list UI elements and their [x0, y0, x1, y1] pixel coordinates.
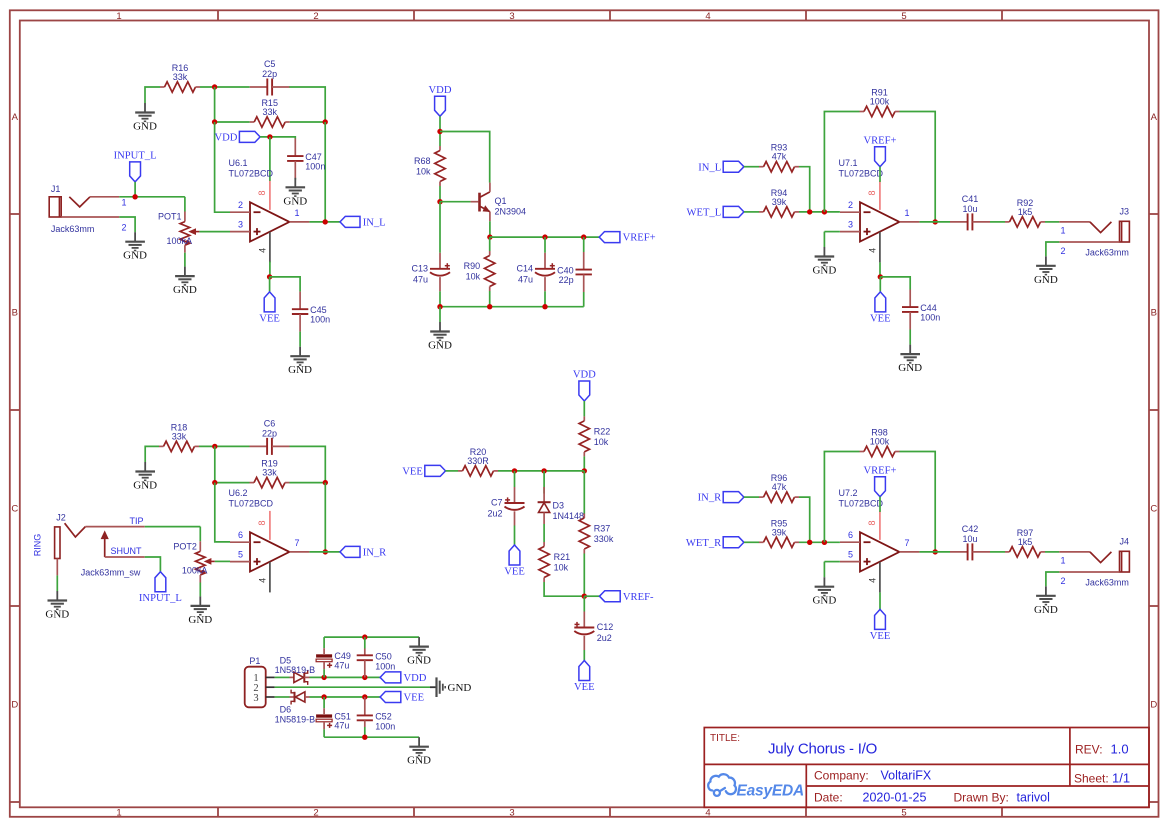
svg-text:TL072BCD: TL072BCD [229, 169, 274, 179]
wire [200, 86, 250, 88]
border row letters [11, 112, 1157, 711]
svg-text:TIP: TIP [130, 516, 144, 526]
svg-text:GND: GND [45, 609, 69, 621]
potentiometer POT1 [158, 197, 199, 267]
node R98/pin6 [822, 540, 827, 545]
svg-text:1: 1 [116, 11, 121, 22]
power flag VDD [380, 672, 427, 684]
wire [299, 332, 301, 347]
svg-text:INPUT_L: INPUT_L [114, 150, 157, 161]
wire [290, 446, 326, 482]
wire [583, 554, 585, 597]
svg-text:J2: J2 [56, 512, 66, 522]
wire [309, 221, 340, 223]
wire [119, 217, 135, 232]
svg-text:POT1: POT1 [158, 212, 182, 222]
svg-text:8: 8 [257, 520, 267, 525]
svg-text:5: 5 [848, 550, 853, 560]
svg-text:100n: 100n [305, 162, 325, 172]
wire [446, 470, 459, 472]
wire [215, 446, 250, 482]
ground [283, 178, 307, 208]
svg-text:2: 2 [122, 222, 127, 232]
company row [814, 769, 932, 783]
svg-text:GND: GND [288, 364, 312, 376]
node R16/C5/R15 [212, 84, 217, 89]
svg-text:R37: R37 [594, 524, 611, 534]
svg-text:GND: GND [898, 362, 922, 374]
ground [133, 462, 157, 492]
node C14/GND rail [542, 304, 547, 309]
svg-text:TL072BCD: TL072BCD [839, 499, 884, 509]
net flag IN_R [340, 546, 387, 558]
net flag IN_L [698, 161, 744, 173]
svg-text:GND: GND [407, 755, 431, 767]
resistor R98 [860, 428, 900, 457]
net flag INPUT_L [139, 572, 182, 605]
node D6/C51 [321, 694, 326, 699]
net flag IN_L [340, 216, 386, 228]
capacitor C6 [250, 418, 290, 455]
power flag VREF+ [863, 465, 896, 496]
wire [823, 232, 825, 247]
capacitor C51 [316, 697, 351, 737]
svg-text:22p: 22p [262, 69, 277, 79]
wire [309, 551, 340, 553]
svg-text:33k: 33k [173, 72, 188, 82]
svg-text:Q1: Q1 [495, 196, 507, 206]
node R19 right [323, 480, 328, 485]
svg-text:C7: C7 [491, 498, 503, 508]
svg-text:4: 4 [705, 11, 710, 22]
svg-text:C40: C40 [557, 266, 574, 276]
wire [583, 471, 585, 514]
svg-text:22p: 22p [262, 428, 277, 438]
node R19 left [212, 480, 217, 485]
svg-text:GND: GND [407, 655, 431, 667]
rev cell [1075, 742, 1129, 757]
power flag VEE [870, 292, 891, 325]
svg-text:B: B [1151, 308, 1157, 319]
diode D3 [538, 487, 584, 524]
svg-text:VoltariFX: VoltariFX [881, 769, 932, 783]
svg-text:C14: C14 [516, 263, 533, 273]
svg-text:IN_L: IN_L [363, 218, 386, 229]
svg-text:2: 2 [313, 808, 318, 819]
capacitor C12 [574, 612, 613, 651]
wire [145, 557, 161, 572]
wire [543, 524, 545, 542]
svg-text:VEE: VEE [402, 467, 423, 478]
svg-text:C6: C6 [264, 418, 276, 428]
ground [430, 677, 471, 697]
op-amp U6.1 [229, 158, 310, 262]
net flag WET_R [686, 537, 744, 549]
wire [310, 676, 381, 678]
resistor R95 [759, 518, 799, 547]
ground [133, 103, 157, 133]
wire [260, 137, 295, 139]
op-amp U7.1 [839, 158, 920, 262]
svg-text:GND: GND [123, 250, 147, 262]
svg-text:B: B [12, 308, 18, 319]
EasyEDA logo [708, 774, 804, 799]
svg-text:7: 7 [904, 538, 909, 548]
power flag VEE [402, 465, 445, 477]
svg-text:TL072BCD: TL072BCD [229, 499, 274, 509]
wire [879, 277, 881, 292]
svg-text:8: 8 [867, 520, 877, 525]
svg-text:39k: 39k [772, 527, 787, 537]
ground [288, 347, 312, 377]
wire [215, 122, 230, 212]
wire [56, 575, 58, 591]
svg-text:C: C [11, 504, 18, 515]
wire [879, 262, 881, 277]
wire [544, 291, 546, 306]
svg-text:3: 3 [238, 220, 243, 230]
wire [919, 551, 950, 553]
resistor R96 [759, 473, 799, 502]
net flag VREF+ [599, 232, 655, 244]
wire [880, 277, 910, 290]
node R15 left [212, 119, 217, 124]
svg-text:33k: 33k [172, 431, 187, 441]
wire [799, 541, 840, 543]
border column numbers [116, 11, 906, 818]
ground [1034, 256, 1058, 286]
svg-text:2: 2 [1061, 576, 1066, 586]
node VREF- [582, 594, 587, 599]
svg-text:1: 1 [1061, 225, 1066, 235]
wire [489, 221, 491, 237]
node U7.1 out [933, 219, 938, 224]
node R15 right [323, 119, 328, 124]
wire [439, 202, 441, 253]
svg-text:INPUT_L: INPUT_L [139, 593, 182, 604]
ground [898, 345, 922, 375]
diode D6 [275, 690, 316, 725]
sheet cell [1074, 771, 1130, 786]
border column ticks [218, 10, 1002, 817]
svg-text:330k: 330k [594, 534, 614, 544]
wire [310, 696, 381, 698]
capacitor C7 [487, 487, 524, 526]
svg-text:July Chorus - I/O: July Chorus - I/O [768, 740, 877, 757]
transistor Q1 [471, 183, 526, 222]
svg-text:U7.1: U7.1 [839, 158, 858, 168]
potentiometer POT2 [173, 527, 214, 597]
node VDD/U6.1 pin8 [267, 134, 272, 139]
svg-text:4: 4 [705, 808, 710, 819]
wire [324, 122, 326, 222]
svg-text:33k: 33k [262, 468, 277, 478]
border row ticks [10, 214, 1159, 802]
svg-text:GND: GND [812, 265, 836, 277]
resistor R94 [759, 188, 799, 217]
svg-text:10k: 10k [466, 272, 481, 282]
svg-text:2u2: 2u2 [487, 509, 502, 519]
svg-text:1: 1 [904, 208, 909, 218]
ground [188, 596, 212, 626]
wire [269, 277, 271, 292]
svg-text:SHUNT: SHUNT [111, 546, 143, 556]
node J1/INPUT_L [132, 194, 137, 199]
capacitor C47 [287, 139, 325, 179]
svg-text:RING: RING [33, 534, 43, 557]
svg-text:1: 1 [294, 208, 299, 218]
svg-text:330R: 330R [467, 456, 489, 466]
node C7/rail [512, 468, 517, 473]
svg-text:2: 2 [1061, 246, 1066, 256]
svg-text:47k: 47k [772, 152, 787, 162]
wire [439, 186, 441, 202]
ground [812, 577, 836, 607]
connector J4 [1059, 536, 1129, 587]
wire [879, 592, 881, 609]
wire [439, 291, 441, 306]
svg-text:WET_L: WET_L [686, 208, 721, 219]
node C52 bottom [362, 735, 367, 740]
node U7.1 pin4 [878, 274, 883, 279]
wire [900, 452, 936, 552]
svg-text:100kA: 100kA [167, 236, 193, 246]
wire [583, 456, 585, 471]
resistor R93 [759, 143, 799, 172]
wire [1046, 572, 1059, 586]
capacitor C44 [902, 290, 940, 330]
wire [324, 636, 419, 638]
svg-text:6: 6 [848, 530, 853, 540]
svg-text:D6: D6 [280, 705, 292, 715]
svg-text:R68: R68 [414, 156, 431, 166]
svg-text:5: 5 [901, 11, 906, 22]
wire [919, 221, 950, 223]
node R90/GND rail [487, 304, 492, 309]
svg-text:8: 8 [867, 190, 877, 195]
svg-text:2020-01-25: 2020-01-25 [863, 790, 927, 804]
svg-text:A: A [1151, 112, 1158, 123]
wire [215, 87, 250, 122]
svg-text:R90: R90 [464, 261, 481, 271]
svg-text:VDD: VDD [573, 370, 596, 381]
wire [990, 551, 1005, 553]
node D3/rail [541, 468, 546, 473]
resistor R97 [1005, 528, 1045, 557]
svg-text:REV:: REV: [1075, 743, 1103, 757]
svg-text:100k: 100k [870, 97, 890, 107]
svg-text:IN_L: IN_L [698, 162, 721, 173]
svg-text:1k5: 1k5 [1018, 207, 1033, 217]
wire [744, 211, 759, 213]
svg-text:100n: 100n [375, 721, 395, 731]
svg-text:VREF+: VREF+ [863, 135, 896, 146]
svg-text:100n: 100n [310, 315, 330, 325]
svg-text:47u: 47u [334, 721, 349, 731]
node U7.2 out [933, 549, 938, 554]
wire [215, 483, 230, 542]
svg-text:47u: 47u [334, 661, 349, 671]
svg-text:IN_R: IN_R [363, 548, 387, 559]
svg-text:EasyEDA: EasyEDA [737, 782, 805, 799]
wire [490, 236, 599, 238]
svg-text:22p: 22p [559, 275, 574, 285]
wire [270, 277, 301, 292]
svg-text:GND: GND [812, 595, 836, 607]
wire [799, 497, 810, 542]
wire [289, 87, 325, 122]
svg-text:POT2: POT2 [173, 542, 197, 552]
capacitor C50 [357, 649, 396, 678]
wire [583, 650, 585, 661]
svg-text:100n: 100n [920, 313, 940, 323]
svg-text:8: 8 [257, 190, 267, 195]
svg-text:100kA: 100kA [182, 566, 208, 576]
svg-text:GND: GND [1034, 604, 1058, 616]
svg-text:GND: GND [283, 195, 307, 207]
wire [799, 167, 810, 212]
wire [275, 676, 290, 678]
wire [514, 526, 516, 546]
power flag VEE [259, 292, 280, 325]
wire [879, 497, 881, 512]
svg-text:Date:: Date: [814, 790, 843, 804]
node C52/VEE [362, 694, 367, 699]
wire [269, 262, 271, 277]
node C13/GND rail [437, 304, 442, 309]
connector P1 [245, 656, 275, 707]
svg-text:3: 3 [848, 220, 853, 230]
svg-text:C42: C42 [962, 524, 979, 534]
resistor R20 [458, 447, 498, 476]
svg-text:C5: C5 [264, 59, 276, 69]
node R94/R93 [807, 209, 812, 214]
svg-text:R22: R22 [594, 426, 611, 436]
svg-text:1k5: 1k5 [1018, 537, 1033, 547]
svg-text:GND: GND [448, 682, 472, 694]
svg-text:VREF+: VREF+ [623, 233, 656, 244]
svg-text:Company:: Company: [814, 769, 869, 783]
wire [1045, 551, 1059, 553]
svg-text:VEE: VEE [870, 313, 891, 324]
svg-text:47u: 47u [413, 274, 428, 284]
node C40/VREF+ row [581, 234, 586, 239]
node Q1-E/VREF+ [487, 234, 492, 239]
power flag VDD [214, 131, 260, 143]
net flag WET_L [686, 206, 743, 218]
svg-text:C45: C45 [310, 305, 327, 315]
svg-text:10k: 10k [416, 167, 431, 177]
svg-text:1/1: 1/1 [1112, 771, 1130, 786]
node C14/VREF+ row [542, 234, 547, 239]
ground [45, 591, 69, 621]
svg-text:2u2: 2u2 [597, 633, 612, 643]
ground [1034, 586, 1058, 616]
svg-text:2: 2 [313, 11, 318, 22]
ground [407, 637, 431, 667]
svg-text:3: 3 [509, 11, 514, 22]
svg-text:C: C [1150, 504, 1157, 515]
svg-text:A: A [12, 112, 19, 123]
svg-text:P1: P1 [249, 656, 260, 666]
wire [145, 87, 160, 103]
ground [123, 232, 147, 262]
svg-text:U7.2: U7.2 [839, 488, 858, 498]
wire [824, 231, 840, 233]
svg-text:1: 1 [116, 808, 121, 819]
wire [990, 221, 1005, 223]
wire [583, 237, 585, 252]
svg-text:D5: D5 [280, 656, 292, 666]
ground [407, 737, 431, 767]
wire [199, 231, 230, 233]
op-amp U7.2 [839, 488, 920, 592]
resistor R18 [159, 422, 199, 451]
resistor R37 [579, 514, 614, 554]
wire [544, 237, 546, 253]
svg-text:GND: GND [133, 480, 157, 492]
node R22/rail [582, 468, 587, 473]
svg-text:GND: GND [188, 614, 212, 626]
svg-text:5: 5 [901, 808, 906, 819]
wire [440, 201, 471, 203]
svg-text:VEE: VEE [259, 313, 280, 324]
svg-text:VEE: VEE [504, 567, 525, 578]
svg-text:10k: 10k [554, 563, 569, 573]
node VDD/R68/Q1-C [437, 129, 442, 134]
wire [215, 560, 230, 562]
wire [584, 595, 599, 597]
svg-text:6: 6 [238, 530, 243, 540]
capacitor C49 [316, 637, 351, 677]
wire [199, 445, 250, 447]
svg-text:10k: 10k [594, 437, 609, 447]
svg-text:100n: 100n [375, 661, 395, 671]
wire [823, 562, 825, 578]
svg-text:D: D [11, 700, 18, 711]
svg-text:tarivol: tarivol [1017, 790, 1050, 804]
capacitor C41 [950, 194, 990, 231]
svg-text:4: 4 [257, 578, 267, 583]
svg-text:1.0: 1.0 [1111, 742, 1129, 757]
svg-text:WET_R: WET_R [686, 538, 722, 549]
wire [119, 196, 185, 198]
net flag VREF- [600, 591, 654, 603]
svg-text:4: 4 [867, 248, 877, 253]
power flag VEE [380, 692, 424, 704]
wire [824, 112, 859, 212]
wire [879, 167, 881, 182]
svg-text:IN_R: IN_R [698, 493, 722, 504]
resistor R92 [1005, 198, 1045, 227]
wire [440, 306, 584, 308]
wire [269, 137, 271, 181]
resistor R16 [160, 63, 200, 92]
svg-text:2: 2 [238, 200, 243, 210]
svg-text:Jack63mm: Jack63mm [1085, 248, 1129, 258]
connector J1 [49, 184, 126, 234]
title block frame [704, 728, 1149, 808]
svg-text:VEE: VEE [404, 693, 425, 704]
wire [583, 292, 585, 307]
svg-text:5: 5 [238, 550, 243, 560]
svg-text:VDD: VDD [214, 133, 237, 144]
svg-text:GND: GND [133, 121, 157, 133]
svg-text:VREF-: VREF- [623, 592, 654, 603]
svg-text:J1: J1 [51, 184, 61, 194]
wire [1046, 242, 1059, 256]
wire [498, 470, 584, 472]
